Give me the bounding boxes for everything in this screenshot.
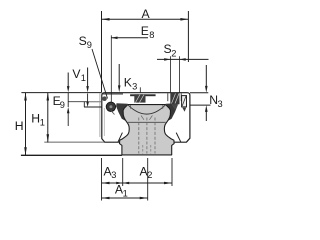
svg-text:E: E: [141, 24, 149, 38]
svg-text:1: 1: [81, 73, 86, 83]
svg-text:9: 9: [87, 40, 92, 50]
svg-text:H: H: [31, 112, 40, 126]
svg-text:3: 3: [218, 99, 223, 109]
svg-text:3: 3: [111, 170, 116, 180]
svg-text:1: 1: [123, 188, 128, 198]
svg-text:2: 2: [147, 170, 152, 180]
svg-text:1: 1: [40, 117, 45, 127]
svg-text:8: 8: [149, 30, 154, 40]
svg-text:K: K: [124, 76, 132, 90]
svg-text:2: 2: [171, 49, 176, 59]
svg-text:3: 3: [132, 82, 137, 92]
svg-text:9: 9: [60, 100, 65, 110]
svg-text:H: H: [15, 119, 24, 133]
svg-text:A: A: [142, 7, 151, 21]
svg-text:S: S: [79, 34, 87, 48]
